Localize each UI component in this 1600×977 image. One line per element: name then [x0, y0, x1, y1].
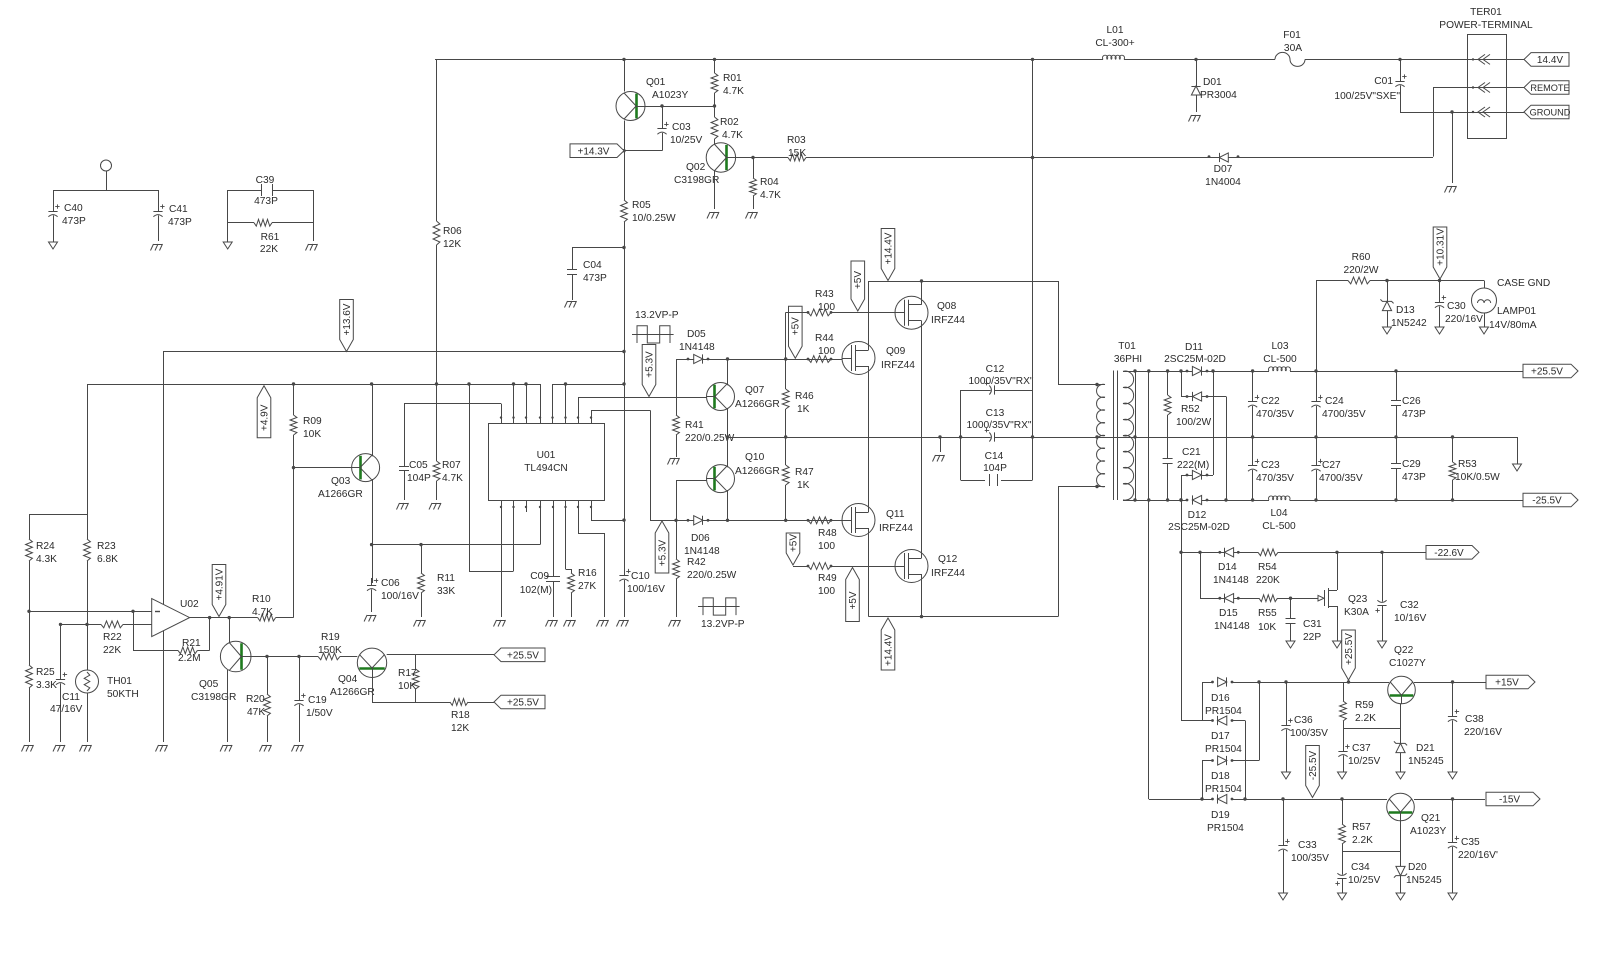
svg-text:1N5242: 1N5242	[1391, 318, 1427, 329]
wire D15 feed	[1200, 552, 1202, 598]
svg-text:U02: U02	[180, 599, 199, 610]
resistor R09	[290, 384, 322, 468]
wire center 0V row	[726, 435, 1517, 438]
svg-text:A1266GR: A1266GR	[318, 489, 363, 500]
wire top +14.4V rail	[435, 58, 1526, 61]
wire R60 feed	[1316, 281, 1318, 372]
svg-text:IRFZ44: IRFZ44	[879, 523, 913, 534]
svg-text:1000/35V"RX": 1000/35V"RX"	[968, 376, 1033, 387]
svg-text:473P: 473P	[168, 217, 192, 228]
pin stub 6 bottom	[564, 501, 571, 570]
wire remote row	[1433, 87, 1524, 89]
wire R03-D07 row	[806, 156, 1433, 159]
wire D14 row	[1181, 551, 1426, 554]
ground arrow C34	[1338, 893, 1347, 900]
transistor Q22	[1388, 645, 1426, 704]
flag +4.9V	[257, 386, 271, 438]
pin stub 3 top	[525, 384, 527, 423]
svg-text:22P: 22P	[1303, 632, 1321, 643]
svg-text:Q23: Q23	[1348, 594, 1368, 605]
svg-text:L01: L01	[1107, 25, 1124, 36]
ground arrow C30	[1435, 327, 1444, 334]
svg-text:27K: 27K	[578, 581, 596, 592]
capacitor C01	[1334, 59, 1406, 112]
svg-text:L03: L03	[1272, 341, 1289, 352]
wire +4.9V bus	[87, 382, 540, 385]
svg-text:10K: 10K	[303, 429, 321, 440]
capacitor C04	[567, 248, 607, 301]
svg-text:Q07: Q07	[745, 385, 765, 396]
svg-text:R49: R49	[818, 573, 837, 584]
resistor R11	[418, 545, 456, 617]
svg-text:-15V: -15V	[1499, 795, 1520, 806]
resistor R20	[246, 656, 270, 742]
wire Q03 collector	[372, 384, 374, 456]
svg-text:D20: D20	[1408, 862, 1427, 873]
ground R25	[22, 745, 34, 752]
wire Q04 base down	[372, 678, 450, 703]
resistor R05	[621, 200, 676, 224]
svg-text:13.2VP-P: 13.2VP-P	[635, 310, 679, 321]
resistor R06	[433, 59, 462, 384]
svg-text:+13.6V: +13.6V	[342, 303, 353, 335]
svg-text:R52: R52	[1181, 404, 1200, 415]
wire C05 top	[404, 403, 501, 405]
svg-text:D06: D06	[691, 533, 710, 544]
svg-text:C3198GR: C3198GR	[191, 692, 236, 703]
wire secondary bottom lead	[1123, 498, 1187, 501]
svg-text:1N5245: 1N5245	[1406, 875, 1442, 886]
pin stub 2 top	[512, 384, 514, 423]
svg-text:R03: R03	[787, 135, 806, 146]
resistor R10	[252, 594, 294, 621]
flag +5V b	[851, 261, 865, 311]
terminal contact REMOTE row	[1472, 83, 1490, 93]
svg-text:1K: 1K	[797, 404, 810, 415]
waveform 13.2VP-P lower	[698, 598, 745, 630]
svg-text:C13: C13	[986, 408, 1005, 419]
wire minus input row	[27, 610, 151, 613]
wire Q08 drain	[921, 281, 923, 300]
svg-text:1N4148: 1N4148	[1214, 621, 1250, 632]
resistor R21	[178, 638, 201, 664]
wire -15V row	[1149, 797, 1485, 800]
mosfet Q12	[895, 550, 965, 583]
svg-text:D15: D15	[1219, 608, 1238, 619]
wire C04 jog	[572, 246, 626, 249]
svg-text:10K: 10K	[1258, 622, 1276, 633]
diode D11 lower	[1181, 392, 1226, 401]
resistor R60	[1343, 252, 1378, 284]
svg-text:470/35V: 470/35V	[1256, 409, 1294, 420]
svg-text:C3198GR: C3198GR	[674, 175, 719, 186]
flag -25.5V feed	[1306, 746, 1320, 798]
transistor Q03	[318, 454, 380, 500]
wire D18 row	[1202, 761, 1259, 800]
wire D11 lower out	[1224, 397, 1227, 502]
svg-text:R11: R11	[437, 573, 455, 584]
zener D13	[1380, 281, 1427, 330]
svg-text:D05: D05	[687, 329, 706, 340]
wire Q03 emitter	[372, 479, 374, 583]
svg-text:T01: T01	[1118, 341, 1136, 352]
capacitor C40	[48, 190, 86, 242]
svg-text:R09: R09	[303, 416, 322, 427]
svg-text:A1266GR: A1266GR	[735, 399, 780, 410]
resistor R43	[807, 289, 836, 316]
ground arrow C35	[1448, 893, 1457, 900]
waveform 13.2VP-P upper	[632, 310, 679, 343]
ground R16	[564, 620, 576, 627]
svg-text:470/35V: 470/35V	[1256, 473, 1294, 484]
capacitor C10	[619, 569, 630, 617]
pin stub 5 top	[551, 384, 553, 423]
wire ground stub	[1452, 112, 1454, 183]
svg-text:-25.5V: -25.5V	[1532, 496, 1562, 507]
svg-text:D13: D13	[1396, 305, 1415, 316]
wire D16-D18 link	[1259, 682, 1261, 761]
capacitor C34	[1335, 851, 1380, 893]
svg-text:PR3004: PR3004	[1200, 90, 1237, 101]
wire R49 row	[793, 566, 895, 568]
svg-text:4.7K: 4.7K	[252, 607, 273, 618]
mosfet Q11	[842, 504, 913, 537]
svg-text:R57: R57	[1352, 822, 1371, 833]
svg-text:C27: C27	[1322, 460, 1341, 471]
svg-text:4.7K: 4.7K	[442, 473, 463, 484]
svg-text:R17: R17	[398, 668, 417, 679]
capacitor C27	[1311, 437, 1362, 500]
svg-text:+4.9V: +4.9V	[259, 404, 270, 431]
capacitor C37	[1338, 728, 1380, 772]
capacitor C21	[1163, 447, 1210, 500]
resistor R01	[711, 59, 744, 106]
ground arrow C37	[1338, 772, 1347, 779]
svg-text:C29: C29	[1402, 459, 1421, 470]
svg-text:4.7K: 4.7K	[760, 190, 781, 201]
svg-text:47K: 47K	[247, 707, 265, 718]
svg-text:R16: R16	[578, 568, 597, 579]
flag +5.3V lower	[655, 521, 669, 573]
svg-text:+14.4V: +14.4V	[883, 232, 894, 264]
svg-text:Q03: Q03	[331, 476, 351, 487]
wire R09-Q03 base	[292, 466, 352, 469]
ground 0V stub	[933, 437, 945, 462]
svg-text:100: 100	[818, 541, 835, 552]
ground pin7 route	[597, 620, 609, 627]
svg-text:+10.31V: +10.31V	[1435, 228, 1446, 266]
svg-text:+15V: +15V	[1495, 678, 1519, 689]
svg-text:R19: R19	[321, 632, 340, 643]
svg-text:U01: U01	[537, 450, 556, 461]
resistor R47	[782, 437, 814, 520]
wire R24-R23 top jog	[29, 384, 88, 515]
svg-text:100: 100	[818, 302, 835, 313]
svg-text:K30A: K30A	[1344, 607, 1369, 618]
wire D15 row	[1200, 597, 1318, 600]
diode D01	[1191, 59, 1237, 112]
wire C12 feed vertical	[1032, 59, 1034, 390]
wire R59-Q22 base row	[1343, 704, 1401, 729]
svg-text:R41: R41	[685, 420, 704, 431]
svg-text:D16: D16	[1211, 693, 1230, 704]
svg-text:C33: C33	[1298, 840, 1317, 851]
svg-text:222(M): 222(M)	[1177, 460, 1209, 471]
wire C40-C41 top	[53, 190, 158, 192]
pin stub 1 bottom	[500, 501, 502, 617]
svg-text:Q09: Q09	[886, 346, 906, 357]
svg-text:3.3K: 3.3K	[36, 680, 57, 691]
transistor Q21	[1387, 793, 1447, 837]
ground C05	[397, 503, 409, 510]
svg-text:C30: C30	[1447, 301, 1466, 312]
svg-text:47/16V: 47/16V	[50, 704, 82, 715]
ground R42	[669, 620, 681, 627]
svg-text:+5V: +5V	[848, 591, 859, 609]
svg-text:A1266GR: A1266GR	[735, 466, 780, 477]
capacitor C09	[520, 571, 560, 617]
svg-text:C10: C10	[631, 571, 650, 582]
svg-text:CL-500: CL-500	[1262, 521, 1296, 532]
zener D20	[1394, 851, 1442, 893]
wire R57-Q21 base row	[1342, 821, 1401, 852]
pin stub 4 bottom	[539, 501, 541, 545]
svg-text:R44: R44	[815, 333, 834, 344]
svg-text:104P: 104P	[407, 473, 431, 484]
svg-text:C06: C06	[381, 578, 400, 589]
svg-text:C1027Y: C1027Y	[1389, 658, 1426, 669]
svg-text:+25.5V: +25.5V	[507, 650, 539, 661]
pin stub 7 bottom	[577, 501, 605, 617]
wire snubber box	[961, 390, 1033, 481]
ground arrow Q23	[1333, 641, 1342, 648]
svg-text:473P: 473P	[254, 196, 278, 207]
svg-text:TER01: TER01	[1470, 7, 1502, 18]
svg-text:C35: C35	[1461, 837, 1480, 848]
inductor L04	[1262, 496, 1296, 532]
IC U01 TL494CN	[489, 424, 605, 501]
wire D06 row	[650, 519, 843, 522]
svg-text:C34: C34	[1351, 862, 1370, 873]
svg-text:PR1504: PR1504	[1205, 784, 1242, 795]
svg-text:C24: C24	[1325, 396, 1344, 407]
svg-text:100/35V: 100/35V	[1290, 728, 1328, 739]
svg-text:CASE GND: CASE GND	[1497, 278, 1550, 289]
svg-text:2SC25M-02D: 2SC25M-02D	[1164, 354, 1226, 365]
flag +5V d	[846, 568, 860, 622]
flag +13.6V	[340, 300, 354, 352]
svg-text:1K: 1K	[797, 480, 810, 491]
svg-text:473P: 473P	[1402, 409, 1426, 420]
wire Q04 right row	[387, 654, 494, 656]
svg-text:2.2K: 2.2K	[1352, 835, 1373, 846]
pin stub 8 bottom	[590, 501, 626, 522]
ground R11	[414, 620, 426, 627]
svg-text:D17: D17	[1211, 731, 1230, 742]
pin stub 5 bottom	[552, 501, 554, 576]
wire Q01 base row	[645, 104, 716, 107]
ground arrow C39 left	[223, 242, 232, 249]
capacitor C19	[294, 656, 332, 742]
svg-text:C37: C37	[1352, 743, 1371, 754]
wire D16 left	[1202, 682, 1204, 721]
ground arrow C40	[49, 242, 58, 249]
svg-text:C31: C31	[1303, 619, 1322, 630]
flag +14.3V	[570, 144, 624, 158]
flag REMOTE	[1524, 81, 1570, 95]
diode D12 lower	[1168, 495, 1230, 533]
svg-text:1/50V: 1/50V	[306, 708, 333, 719]
svg-text:F01: F01	[1283, 30, 1301, 41]
lamp LAMP01	[1472, 278, 1551, 331]
wire U02 output row	[190, 616, 258, 619]
resistor R02	[711, 106, 743, 143]
pin stub 1 top	[500, 404, 502, 423]
capacitor C11	[50, 624, 82, 742]
wire C03 bottom jog	[622, 149, 662, 152]
svg-text:PR1504: PR1504	[1205, 744, 1242, 755]
wire D11 out vertical	[1211, 369, 1214, 475]
pin stub 8 top	[590, 410, 592, 423]
ground TH01	[80, 745, 92, 752]
diode D19	[1207, 794, 1244, 834]
wire Q05 emitter	[227, 670, 229, 742]
wire Q09-Q11 chain	[868, 371, 870, 507]
flag +25.5V rail	[1523, 364, 1578, 378]
diode D05	[679, 329, 715, 364]
svg-text:R23: R23	[97, 541, 116, 552]
svg-text:R54: R54	[1258, 562, 1277, 573]
resistor R61	[228, 219, 313, 255]
svg-text:R04: R04	[760, 177, 779, 188]
svg-text:D14: D14	[1218, 562, 1237, 573]
ground C09	[546, 620, 558, 627]
wire pin8 row	[591, 410, 651, 520]
svg-text:10/25V: 10/25V	[670, 135, 702, 146]
svg-text:R59: R59	[1355, 700, 1374, 711]
svg-text:A1266GR: A1266GR	[330, 687, 375, 698]
svg-text:100/2W: 100/2W	[1176, 417, 1211, 428]
svg-text:Q02: Q02	[686, 162, 706, 173]
svg-text:473P: 473P	[1402, 472, 1426, 483]
wire Q05 base row	[251, 655, 318, 658]
svg-text:15K: 15K	[788, 148, 806, 159]
resistor R59	[1340, 682, 1377, 728]
svg-text:R06: R06	[443, 226, 462, 237]
pin stub 2 bottom	[512, 501, 514, 571]
svg-text:Q21: Q21	[1421, 813, 1441, 824]
svg-text:4700/35V: 4700/35V	[1322, 409, 1366, 420]
wire Q04 left row entry	[357, 654, 359, 656]
ground arrow C33	[1279, 893, 1288, 900]
svg-text:10K/0.5W: 10K/0.5W	[1455, 472, 1500, 483]
svg-text:IRFZ44: IRFZ44	[881, 360, 915, 371]
diode D12 upper	[1181, 470, 1213, 479]
ground Q05	[220, 745, 232, 752]
svg-text:102(M): 102(M)	[520, 585, 552, 596]
svg-text:PR1504: PR1504	[1205, 706, 1242, 717]
ground arrow C36	[1282, 772, 1291, 779]
op-amp U02	[152, 599, 199, 637]
svg-text:4700/35V: 4700/35V	[1319, 473, 1363, 484]
svg-text:473P: 473P	[583, 273, 607, 284]
svg-text:2.2K: 2.2K	[1355, 713, 1376, 724]
resistor R54	[1256, 549, 1280, 586]
svg-text:50KTH: 50KTH	[107, 689, 139, 700]
svg-text:4.3K: 4.3K	[36, 554, 57, 565]
svg-text:10K: 10K	[398, 681, 416, 692]
resistor R23	[84, 514, 119, 624]
capacitor C35	[1448, 799, 1498, 893]
flag +25.5V feed	[1342, 630, 1356, 680]
wire R48 row to Q11	[831, 520, 844, 522]
wire Q11 source	[868, 533, 870, 617]
svg-text:4.7K: 4.7K	[722, 130, 743, 141]
capacitor C39	[254, 175, 278, 207]
resistor R49	[807, 563, 837, 597]
ground R04	[746, 212, 758, 219]
flag +5V c	[786, 533, 800, 565]
ground TER01	[1445, 186, 1457, 193]
label C10	[627, 571, 665, 595]
wire Q07 collector	[727, 359, 729, 385]
transformer core	[1114, 371, 1118, 501]
svg-text:+14.4V: +14.4V	[883, 634, 894, 666]
svg-text:10/16V: 10/16V	[1394, 613, 1426, 624]
svg-text:1N4004: 1N4004	[1205, 177, 1241, 188]
resistor R24	[26, 514, 58, 611]
ground 0V right arrow	[1513, 437, 1522, 471]
svg-text:IRFZ44: IRFZ44	[931, 568, 965, 579]
inductor L03	[1263, 341, 1297, 371]
wire -25.5V rail	[1202, 498, 1523, 501]
ground C41	[151, 244, 163, 251]
capacitor C41	[153, 190, 192, 241]
svg-text:Q10: Q10	[745, 452, 765, 463]
resistor R03	[787, 135, 806, 161]
svg-text:C26: C26	[1402, 396, 1421, 407]
svg-text:CL-300+: CL-300+	[1095, 38, 1134, 49]
svg-text:C21: C21	[1182, 447, 1201, 458]
svg-text:-25.5V: -25.5V	[1308, 750, 1319, 780]
svg-text:R48: R48	[818, 528, 837, 539]
svg-text:104P: 104P	[983, 463, 1007, 474]
svg-text:220/2W: 220/2W	[1343, 265, 1378, 276]
svg-text:12K: 12K	[451, 723, 469, 734]
svg-text:C11: C11	[62, 692, 80, 703]
ground U02 rail	[156, 745, 168, 752]
flag -25.5V rail	[1523, 493, 1578, 507]
flag +25.5V out a	[494, 648, 545, 662]
capacitor C33	[1278, 799, 1329, 893]
transistor Q02	[674, 143, 736, 186]
svg-text:1N4148: 1N4148	[679, 342, 715, 353]
transistor Q04	[330, 648, 387, 698]
resistor R52	[1164, 371, 1211, 457]
wire feedback jog	[469, 384, 514, 572]
terminal contact GROUND row	[1472, 107, 1490, 117]
capacitor C38	[1448, 682, 1502, 772]
transistor Q05	[191, 641, 251, 703]
svg-text:100: 100	[818, 586, 835, 597]
svg-text:LAMP01: LAMP01	[1497, 306, 1536, 317]
wire D05 row	[676, 357, 843, 360]
diode D11 upper	[1164, 342, 1226, 376]
diode D07	[1205, 153, 1241, 188]
svg-text:220/16V: 220/16V	[1464, 727, 1502, 738]
svg-text:14V/80mA: 14V/80mA	[1489, 320, 1537, 331]
resistor R41	[673, 359, 735, 457]
